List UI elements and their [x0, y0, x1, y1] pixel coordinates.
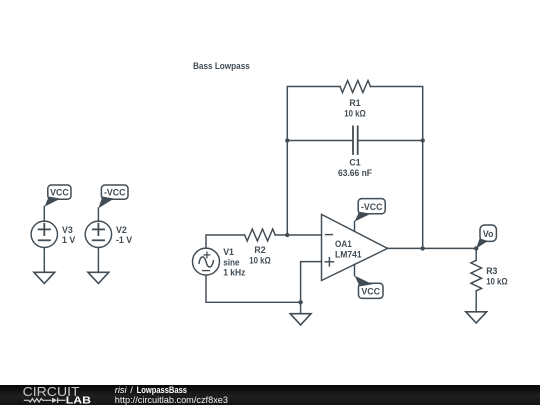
svg-text:-VCC: -VCC — [361, 202, 383, 212]
net flag VCC (op-amp V-) — [355, 276, 383, 299]
net flag VCC (at V3) — [45, 185, 72, 207]
resistor R1 — [340, 81, 371, 119]
resistor R3 — [471, 248, 508, 311]
svg-text:Vo: Vo — [483, 229, 494, 239]
svg-text:R1: R1 — [349, 98, 360, 108]
junction — [285, 138, 289, 142]
svg-text:1 V: 1 V — [62, 235, 75, 245]
svg-text:risi: risi — [115, 385, 128, 395]
junction — [474, 246, 478, 250]
ground — [466, 312, 487, 323]
svg-text:Bass Lowpass: Bass Lowpass — [193, 61, 250, 71]
junction — [421, 138, 425, 142]
wire — [287, 87, 340, 236]
wire — [206, 235, 245, 248]
net flag Vo — [476, 225, 496, 248]
wire — [97, 208, 99, 221]
net flag -VCC (at V2) — [98, 185, 128, 208]
wire — [43, 248, 45, 273]
resistor R2 — [245, 229, 276, 266]
svg-text:C1: C1 — [349, 158, 360, 168]
voltage source V3 — [31, 221, 75, 247]
op-amp OA1 — [322, 214, 388, 280]
svg-text:VCC: VCC — [50, 188, 69, 198]
svg-text:sine: sine — [223, 258, 239, 268]
svg-text:V3: V3 — [62, 225, 73, 235]
svg-text:1 kHz: 1 kHz — [223, 268, 246, 278]
ground — [290, 314, 311, 325]
svg-text:10 kΩ: 10 kΩ — [486, 277, 508, 287]
wire — [287, 140, 353, 142]
footer bar — [0, 385, 540, 405]
capacitor C1 — [338, 126, 373, 178]
ground — [34, 272, 55, 283]
wire — [301, 262, 322, 303]
svg-text:R2: R2 — [254, 245, 265, 255]
svg-text:LAB: LAB — [66, 396, 91, 405]
junction — [298, 300, 302, 304]
svg-text:V2: V2 — [116, 225, 127, 235]
svg-text:10 kΩ: 10 kΩ — [249, 256, 271, 266]
ground — [88, 272, 109, 283]
wire — [388, 247, 477, 249]
svg-text:VCC: VCC — [361, 286, 380, 296]
svg-text:R3: R3 — [486, 266, 497, 276]
svg-text:-VCC: -VCC — [104, 188, 126, 198]
wire — [275, 234, 321, 236]
CircuitLab logo mark (resistor + diode) — [24, 398, 66, 403]
svg-text:-1 V: -1 V — [116, 235, 132, 245]
svg-text:63.66 nF: 63.66 nF — [338, 168, 373, 178]
svg-text:V1: V1 — [223, 247, 234, 257]
wire — [300, 302, 302, 313]
voltage source V2 — [85, 221, 132, 247]
wire — [97, 248, 99, 273]
junction — [421, 246, 425, 250]
svg-text:http://circuitlab.com/czf8xe3: http://circuitlab.com/czf8xe3 — [115, 395, 228, 405]
wire — [206, 275, 301, 302]
svg-text:OA1: OA1 — [335, 239, 352, 249]
wire — [43, 206, 45, 221]
svg-text:LowpassBass: LowpassBass — [137, 385, 187, 395]
svg-text:LM741: LM741 — [335, 249, 362, 259]
voltage source V1 — [193, 247, 246, 278]
svg-text:10 kΩ: 10 kΩ — [344, 109, 366, 119]
junction — [285, 233, 289, 237]
wire — [371, 87, 423, 249]
net flag -VCC (op-amp V+) — [355, 199, 386, 222]
wire — [358, 140, 423, 142]
svg-text:/: / — [130, 385, 133, 395]
